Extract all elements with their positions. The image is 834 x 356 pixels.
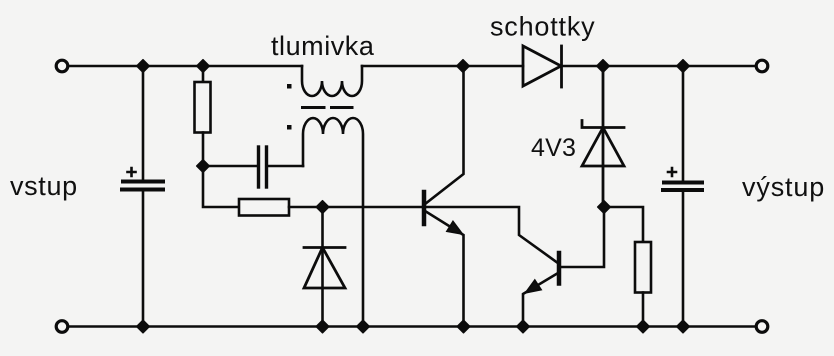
zener diode 4V3 bbox=[582, 66, 624, 207]
node junction collector node bbox=[457, 60, 470, 73]
node junction D1 bottom bbox=[316, 320, 329, 333]
resistor R1 bbox=[195, 66, 211, 166]
diode D1 bbox=[304, 207, 345, 327]
wire Q1 base node to Q2 collector bbox=[426, 207, 557, 262]
bottom rail wire bbox=[69, 325, 755, 328]
node junction C3 top bbox=[677, 60, 690, 73]
node junction zener top bbox=[597, 60, 610, 73]
wire C1 branch top bbox=[142, 66, 145, 179]
wire C3 branch top bbox=[682, 66, 685, 180]
node junction C1 bottom bbox=[137, 320, 150, 333]
node junction C3 bottom bbox=[677, 320, 690, 333]
capacitor C2 bbox=[259, 147, 267, 187]
wire R2 feed bbox=[203, 166, 239, 207]
svg-text:vstup: vstup bbox=[10, 171, 78, 201]
node junction base node bbox=[316, 201, 329, 214]
schottky diode bbox=[523, 46, 562, 87]
wire to C2 bbox=[203, 165, 256, 168]
wire R2 to node bbox=[289, 206, 323, 209]
capacitor C3 bbox=[663, 183, 702, 191]
node junction zener bottom bbox=[598, 201, 611, 214]
node junction secondary to bottom rail bbox=[357, 320, 370, 333]
transformer polarity dot primary bbox=[287, 84, 292, 89]
node junction top of R1 bbox=[197, 60, 210, 73]
transformer polarity dot secondary bbox=[287, 125, 292, 130]
capacitor C1 plus sign bbox=[128, 168, 136, 176]
wire top rail middle bbox=[362, 65, 523, 68]
wire C1 branch bottom bbox=[142, 192, 145, 327]
wire top rail after schottky bbox=[562, 65, 683, 68]
svg-text:tlumivka: tlumivka bbox=[271, 31, 375, 61]
node junction Q2 emitter bottom bbox=[517, 320, 530, 333]
output terminal top bbox=[756, 60, 768, 72]
node junction Q1 emitter bottom bbox=[457, 320, 470, 333]
node junction R1 bottom bbox=[197, 160, 210, 173]
transformer core bbox=[303, 106, 353, 109]
node junction top of C1 bbox=[137, 60, 150, 73]
input terminal bottom bbox=[56, 321, 68, 333]
transistor Q2 bbox=[523, 207, 604, 327]
transistor Q1 bbox=[424, 66, 464, 327]
svg-text:4V3: 4V3 bbox=[531, 134, 576, 162]
wire base node to Q1 bbox=[323, 206, 423, 209]
input terminal top bbox=[56, 60, 68, 72]
capacitor C1 bbox=[122, 182, 163, 190]
wire C3 branch bottom bbox=[682, 192, 685, 327]
wire C2 to secondary winding bbox=[268, 165, 303, 168]
resistor R3 bbox=[604, 207, 651, 327]
output terminal bottom bbox=[756, 321, 768, 333]
node junction R3 bottom bbox=[637, 320, 650, 333]
resistor R2 bbox=[239, 199, 289, 216]
capacitor C3 plus sign bbox=[668, 168, 676, 176]
transformer L1 primary winding bbox=[302, 66, 362, 96]
svg-text:schottky: schottky bbox=[490, 12, 595, 42]
svg-text:výstup: výstup bbox=[742, 172, 825, 202]
wire top rail left bbox=[69, 65, 302, 68]
wire top rail right bbox=[683, 65, 755, 68]
transformer L1 secondary winding bbox=[303, 118, 363, 327]
